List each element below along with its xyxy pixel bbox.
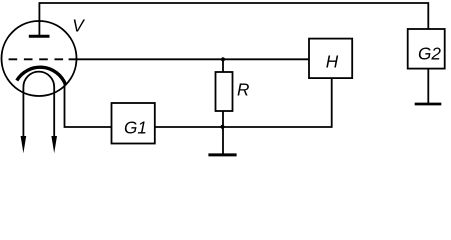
wire: cathode down and to G1 (65, 84, 112, 127)
svg-text:V: V (72, 16, 85, 36)
svg-text:G2: G2 (418, 44, 441, 64)
heater arrow right (51, 136, 57, 153)
wire: resistor bottom lead to ground (222, 111, 224, 155)
box G2 (408, 29, 445, 69)
junction dot top (grid/R node) (221, 57, 225, 61)
tube V grid (dashed) (9, 58, 64, 60)
tube V anode plate (29, 35, 50, 38)
resistor R (216, 72, 233, 111)
heater arrow left (21, 136, 27, 153)
wire: anode top rail to G2 (39, 3, 428, 29)
ground below resistor (208, 153, 236, 156)
box G1 (112, 103, 155, 144)
wire: G1 to H bottom (155, 78, 332, 127)
svg-text:R: R (237, 79, 249, 99)
svg-text:G1: G1 (124, 118, 147, 138)
wire: grid to H (69, 58, 309, 60)
tube V anode lead (38, 3, 40, 35)
tube V heater (23, 72, 54, 137)
box H (309, 39, 352, 79)
tube V envelope (2, 21, 77, 96)
wire: resistor top lead (222, 59, 224, 72)
G2 bottom lead (427, 69, 429, 104)
tube V cathode (17, 67, 66, 85)
svg-text:H: H (326, 52, 339, 72)
junction dot bottom (cathode/R node) (220, 125, 224, 129)
ground below G2 (415, 103, 442, 106)
